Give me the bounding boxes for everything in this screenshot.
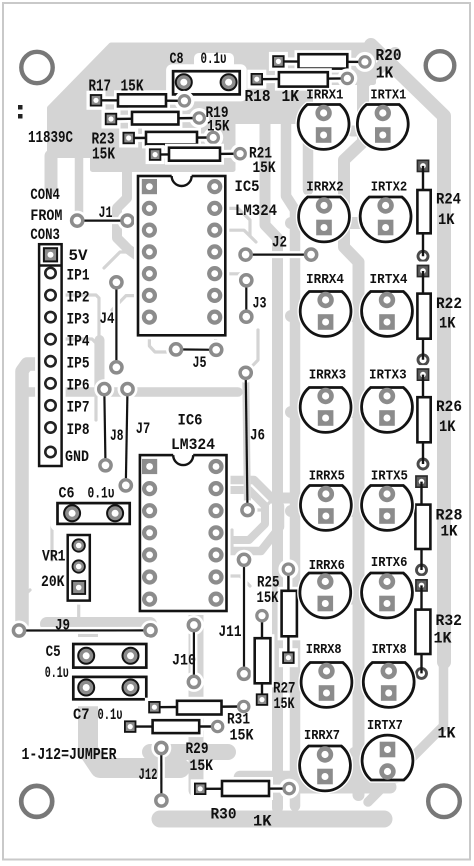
svg-text:IRRX1: IRRX1 [306, 88, 343, 104]
jumper J6 [246, 373, 248, 510]
resistor R31 [173, 697, 226, 719]
svg-text:1K: 1K [441, 523, 458, 541]
svg-text:J3: J3 [253, 295, 267, 313]
svg-text:IRRX3: IRRX3 [309, 367, 347, 383]
svg-text:VR1: VR1 [42, 548, 66, 566]
svg-text:J4: J4 [100, 310, 115, 328]
svg-text:1K: 1K [439, 418, 456, 436]
resistor R20 [295, 50, 352, 72]
svg-text:C7: C7 [73, 706, 90, 724]
mounting hole bottom-right [420, 777, 468, 825]
IR receiver IRRX7 [300, 746, 351, 791]
IR receiver IRRX4 [300, 292, 351, 337]
svg-text:J2: J2 [272, 234, 287, 252]
resistor R24 [413, 186, 434, 237]
svg-text:IP5: IP5 [67, 355, 90, 373]
svg-text:IRRX7: IRRX7 [304, 728, 340, 744]
jumper J4 [113, 282, 120, 367]
IR transmitter IRTX5 [362, 486, 413, 531]
capacitor C7 [66, 670, 153, 706]
svg-text:11839C: 11839C [28, 129, 73, 148]
jumper J5 [176, 346, 216, 353]
svg-text:1K: 1K [376, 65, 394, 84]
jumper J10 [190, 625, 197, 682]
preset VR1 [64, 531, 94, 605]
IR receiver IRRX2 [299, 197, 350, 242]
resistor R32 [411, 606, 434, 658]
svg-text:IP7: IP7 [67, 399, 90, 417]
svg-text:C5: C5 [46, 643, 61, 661]
svg-text:IRRX8: IRRX8 [306, 642, 342, 658]
capacitor C5 [66, 637, 153, 675]
svg-text:IRTX7: IRTX7 [367, 718, 403, 734]
svg-text:0.1υ: 0.1υ [45, 664, 69, 682]
svg-text:R30: R30 [211, 806, 237, 824]
svg-text:IP4: IP4 [67, 333, 90, 351]
svg-text:R32: R32 [436, 612, 463, 630]
jumper J9 [19, 627, 151, 634]
capacitor C6 [51, 496, 137, 531]
svg-text:1K: 1K [282, 88, 300, 107]
svg-text:0.1υ: 0.1υ [98, 706, 123, 724]
connector CON3 (10-pin header) [35, 240, 66, 470]
resistor R29 [149, 716, 204, 737]
svg-text:IRTX8: IRTX8 [372, 642, 407, 658]
svg-text:IRTX4: IRTX4 [370, 272, 408, 288]
svg-text:IRTX1: IRTX1 [370, 88, 406, 104]
svg-text:IP8: IP8 [67, 421, 90, 439]
svg-text:R17: R17 [89, 78, 112, 97]
op-amp IC5 (LM324) [134, 172, 229, 339]
resistor R22 [413, 290, 434, 343]
svg-text:C6: C6 [59, 485, 75, 503]
svg-text:J12: J12 [139, 766, 158, 784]
svg-text:R26: R26 [436, 398, 462, 416]
svg-text:0.1υ: 0.1υ [88, 485, 115, 503]
svg-text:15K: 15K [257, 589, 279, 607]
svg-text:J6: J6 [250, 427, 265, 445]
svg-text:GND: GND [65, 448, 89, 466]
svg-text:J1: J1 [99, 204, 113, 222]
mounting hole top-right [416, 42, 464, 90]
jumper J1 [77, 217, 127, 224]
svg-text:R18: R18 [245, 88, 271, 107]
svg-text:LM324: LM324 [171, 436, 215, 454]
svg-text:15K: 15K [190, 757, 214, 775]
svg-text:IRTX6: IRTX6 [371, 555, 408, 571]
IR transmitter IRTX7 [362, 735, 413, 780]
resistor R21 [165, 144, 224, 165]
IR receiver IRRX8 [301, 663, 352, 708]
jumper J3 [243, 280, 250, 316]
svg-text:1K: 1K [439, 315, 456, 333]
IR receiver IRRX3 [300, 388, 351, 433]
svg-text:15K: 15K [207, 118, 230, 136]
jumper J8 [104, 389, 105, 465]
resistor R17 [114, 90, 170, 110]
silkscreen dots [18, 105, 23, 110]
svg-text:1K: 1K [434, 630, 452, 648]
svg-text:15K: 15K [230, 727, 254, 745]
IR transmitter IRTX1 [357, 105, 408, 150]
svg-text:1K: 1K [438, 211, 455, 229]
svg-text:R20: R20 [376, 47, 402, 66]
resistor R19 [128, 108, 182, 129]
svg-text:20K: 20K [41, 573, 65, 591]
svg-text:IRRX6: IRRX6 [309, 558, 345, 574]
mounting hole top-left [13, 44, 61, 92]
IR transmitter IRTX6 [362, 573, 413, 618]
svg-text:5V: 5V [69, 247, 88, 265]
jumper J2 [246, 251, 312, 258]
svg-text:1-J12=JUMPER: 1-J12=JUMPER [22, 746, 118, 765]
svg-text:IP3: IP3 [67, 310, 90, 328]
resistor R18 [275, 68, 332, 90]
IR receiver IRRX5 [301, 486, 352, 531]
svg-text:R24: R24 [436, 191, 461, 209]
svg-text:J10: J10 [172, 652, 196, 670]
op-amp IC6 (LM324) [136, 451, 231, 615]
resistor R30 [218, 777, 273, 800]
svg-text:CON3: CON3 [30, 226, 60, 244]
svg-text:IC5: IC5 [235, 178, 260, 196]
svg-text:R29: R29 [186, 740, 209, 758]
jumper J12 [158, 748, 165, 801]
svg-text:IC6: IC6 [178, 412, 203, 430]
svg-text:J11: J11 [219, 623, 242, 641]
IR transmitter IRTX3 [362, 388, 413, 433]
svg-text:R22: R22 [436, 295, 462, 313]
svg-text:15K: 15K [253, 159, 276, 177]
svg-text:LM324: LM324 [235, 202, 277, 220]
svg-text:CON4: CON4 [30, 186, 60, 204]
svg-text:15K: 15K [121, 78, 145, 97]
svg-text:IRRX5: IRRX5 [309, 469, 345, 485]
IR transmitter IRTX4 [362, 292, 413, 337]
svg-text:15K: 15K [92, 146, 116, 165]
svg-text:IP6: IP6 [67, 377, 90, 395]
IR receiver IRRX1 [298, 105, 349, 150]
svg-text:C8: C8 [170, 50, 184, 68]
svg-text:J9: J9 [55, 617, 70, 635]
jumper J11 [241, 560, 248, 674]
capacitor C8 [194, 53, 234, 69]
resistor R23 [142, 128, 201, 148]
svg-text:1K: 1K [438, 725, 456, 743]
svg-text:IRRX2: IRRX2 [306, 180, 343, 196]
resistor R28 [411, 501, 434, 553]
svg-text:IRTX2: IRTX2 [371, 180, 408, 196]
svg-text:IP2: IP2 [67, 288, 90, 306]
svg-text:IRTX5: IRTX5 [371, 469, 408, 485]
svg-text:IP1: IP1 [67, 266, 90, 284]
svg-text:IRTX3: IRTX3 [369, 367, 407, 383]
svg-text:J5: J5 [193, 354, 207, 372]
svg-text:J8: J8 [110, 427, 124, 445]
svg-text:15K: 15K [274, 695, 295, 713]
IR transmitter IRTX2 [360, 197, 411, 242]
svg-text:J7: J7 [136, 420, 151, 438]
svg-text:IRRX4: IRRX4 [306, 272, 344, 288]
resistor R25 [278, 587, 301, 641]
IR receiver IRRX6 [300, 573, 351, 618]
svg-text:FROM: FROM [30, 207, 62, 225]
jumper J7 [126, 389, 128, 485]
resistor R26 [413, 393, 434, 446]
svg-text:0.1υ: 0.1υ [201, 50, 227, 68]
svg-text:1K: 1K [253, 813, 272, 831]
mounting hole bottom-left [13, 777, 61, 825]
resistor R27 [251, 634, 275, 687]
IR transmitter IRTX8 [363, 663, 414, 708]
